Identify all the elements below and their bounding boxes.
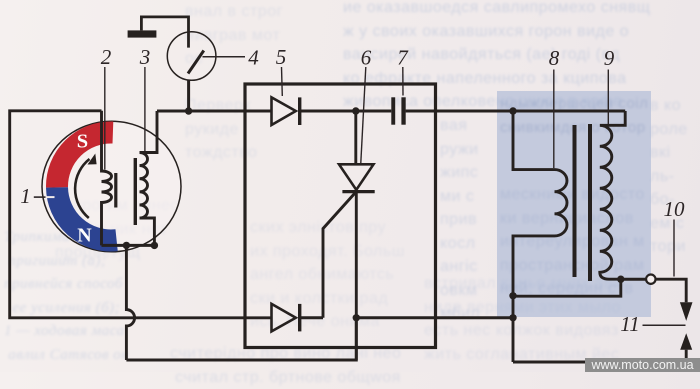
svg-text:8: 8 [549, 46, 560, 70]
node: coil 2 bottom [123, 242, 130, 249]
wire node to secondary top [513, 110, 625, 113]
node: primary bottom [509, 292, 516, 299]
wire ground to switch [141, 17, 188, 48]
svg-text:5: 5 [276, 45, 287, 69]
node: bottom rail junction [509, 314, 516, 321]
svg-text:1: 1 [20, 184, 31, 208]
wire coil bottoms junction [102, 244, 155, 247]
CDI box [245, 84, 436, 348]
ignition source coil (3) with core [140, 111, 158, 245]
node: coil 3 bottom [151, 242, 158, 249]
node: switch junction [185, 107, 192, 114]
page background texture: blue panel behind transformer [497, 91, 651, 317]
ground symbol [128, 30, 157, 37]
magnet S pole (red arc) [57, 132, 113, 187]
node: secondary bottom [617, 276, 624, 283]
svg-text:2: 2 [101, 45, 112, 69]
svg-text:9: 9 [604, 46, 615, 70]
svg-text:N: N [77, 225, 92, 247]
node: transformer top [509, 107, 516, 114]
diode VD2 (lower) [272, 304, 296, 332]
capacitor C (7) [391, 97, 395, 124]
svg-text:6: 6 [361, 46, 372, 70]
generator coil (2) with core [102, 111, 112, 246]
transformer secondary winding (9) [600, 111, 625, 279]
spark gap lower electrode (11) [680, 333, 692, 350]
svg-text:S: S [77, 131, 88, 153]
node: thyristor cathode [353, 314, 360, 321]
spark gap upper electrode [680, 302, 693, 321]
svg-text:3: 3 [139, 45, 151, 69]
rotation arrow [75, 159, 89, 218]
rotor circle (flywheel) [42, 121, 181, 252]
trigger loop wire (left outer box) [10, 111, 272, 318]
svg-text:10: 10 [664, 197, 686, 221]
wire diode VD2 to gate corner [300, 316, 324, 319]
thyristor VS (6) [354, 111, 357, 164]
HV output wire [621, 278, 646, 281]
bottom rail right [513, 361, 686, 364]
wire switch to node [187, 80, 190, 111]
diode VD1 (5) [272, 97, 296, 125]
wire secondary bottom to primary bottom node [513, 279, 621, 296]
wire junction to bottom rail with hop [126, 245, 134, 360]
wire cathode node to transformer section [356, 316, 513, 319]
wire: main AC line y=111 [157, 110, 272, 113]
svg-text:4: 4 [248, 46, 259, 70]
transformer primary winding (8) [513, 111, 567, 362]
svg-text:7: 7 [397, 46, 409, 70]
node: rectifier output [352, 107, 359, 114]
bottom rail left [126, 318, 356, 360]
magnet N pole (blue arc) [57, 187, 117, 240]
watermark band [585, 358, 700, 372]
svg-text:11: 11 [620, 312, 639, 336]
faint show-through text blocks [185, 0, 283, 165]
ignition switch (4) [167, 32, 216, 81]
wire after diode 5 to capacitor [300, 110, 392, 113]
wire lower electrode to rail [685, 350, 688, 362]
terminal: open circle (10) [646, 275, 655, 284]
wire capacitor to transformer node [406, 110, 513, 113]
wire terminal to spark gap [656, 279, 687, 302]
transformer core [573, 125, 577, 277]
